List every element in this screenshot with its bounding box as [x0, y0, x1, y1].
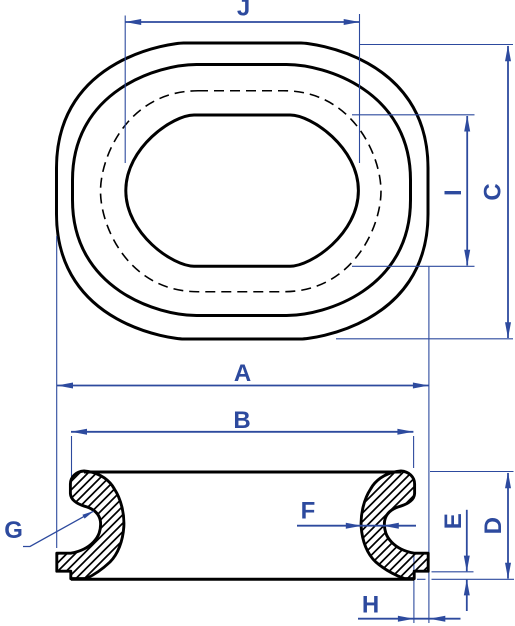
- svg-text:C: C: [480, 183, 507, 200]
- dim line J: [125, 21, 360, 23]
- ext line I bottom: [352, 265, 475, 267]
- ext line A left: [56, 236, 58, 548]
- ext line E top: [432, 571, 474, 573]
- body bottom line: [71, 578, 414, 581]
- ext line B right upper: [413, 436, 415, 468]
- arrow H right (points left, tip 429.3): [429, 616, 445, 622]
- dim line E upper: [466, 510, 468, 572]
- dim line D: [507, 473, 509, 579]
- arrow C top: [505, 45, 511, 61]
- dim line I: [466, 116, 468, 266]
- svg-text:I: I: [440, 189, 467, 196]
- arrow J left: [125, 19, 141, 25]
- arrow F left (points right, tip at 361.8): [346, 523, 362, 529]
- ext line A right (also H right ext): [428, 266, 430, 623]
- dim line B: [71, 431, 413, 433]
- leader G: [23, 511, 94, 546]
- arrow I top: [464, 116, 470, 132]
- dim line H: [358, 618, 461, 620]
- arrow J right: [344, 19, 360, 25]
- left cross-section (hatched): [57, 471, 124, 579]
- svg-text:D: D: [480, 517, 507, 534]
- second oval: [73, 65, 411, 316]
- ext line D top: [430, 471, 514, 473]
- arrow I bottom: [464, 250, 470, 266]
- dim line E lower: [466, 580, 468, 611]
- right cross-section (hatched): [361, 471, 428, 579]
- svg-text:A: A: [234, 360, 251, 387]
- ext line B left: [71, 436, 73, 477]
- arrow A right: [413, 383, 429, 389]
- svg-text:H: H: [362, 592, 379, 619]
- arrow E upper (points down to 571.8): [464, 556, 470, 572]
- svg-text:B: B: [233, 407, 250, 434]
- dim line F: [297, 525, 416, 527]
- svg-text:J: J: [237, 0, 250, 22]
- arrow B left: [71, 429, 87, 435]
- outer oval: [57, 43, 429, 339]
- ext line I top: [352, 114, 475, 116]
- ext line J left: [124, 16, 126, 164]
- arrow H left (points right, tip 413.9): [398, 616, 414, 622]
- ext line D/E bottom: [417, 578, 426, 580]
- svg-text:E: E: [440, 513, 467, 529]
- inner oval (hole): [126, 115, 359, 266]
- dim line C: [507, 46, 509, 338]
- arrowhead G: [82, 509, 95, 519]
- svg-text:G: G: [4, 517, 23, 544]
- arrow B right: [397, 429, 413, 435]
- ext line J right: [359, 14, 361, 163]
- ext line C bottom: [336, 338, 513, 340]
- arrow D top: [505, 472, 511, 488]
- arrow A left: [57, 383, 73, 389]
- dim line A: [57, 385, 429, 387]
- arrow E lower (points up to 579.3): [464, 579, 470, 595]
- arrow F right (points left, tip at 382.8): [383, 523, 399, 529]
- ext line B/H lower: [413, 556, 415, 623]
- arrow D bottom: [505, 563, 511, 579]
- arrow C bottom: [505, 322, 511, 338]
- svg-text:F: F: [301, 498, 316, 525]
- body top line: [84, 471, 401, 474]
- ext line C top: [360, 44, 513, 46]
- dashed pitch oval: [101, 91, 382, 292]
